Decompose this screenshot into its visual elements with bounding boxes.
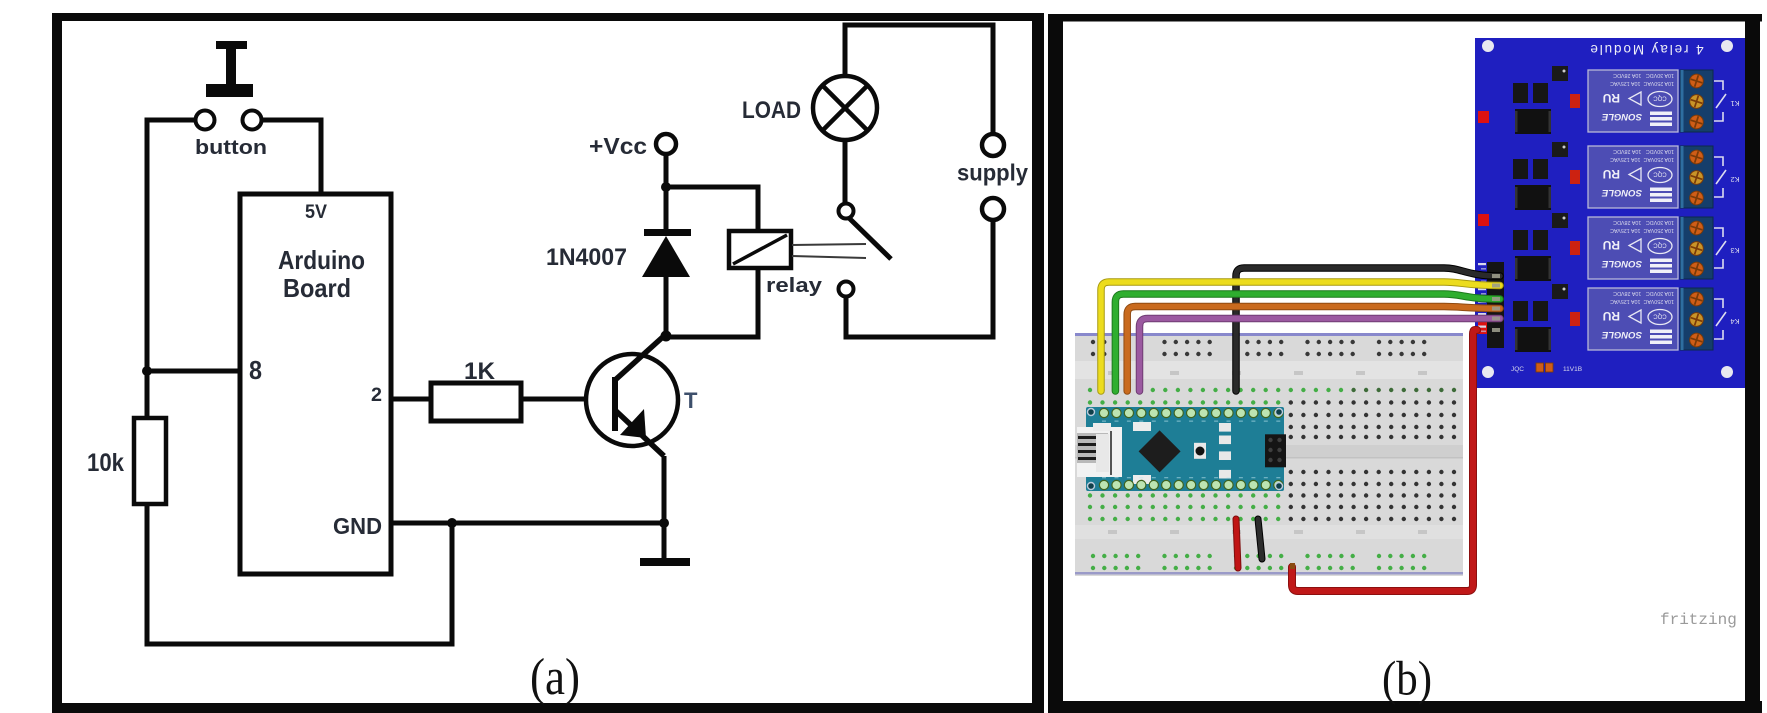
svg-text:(a): (a): [530, 649, 580, 706]
svg-text:K2: K2: [1730, 175, 1739, 184]
svg-text:RU: RU: [1603, 309, 1620, 323]
svg-text:T: T: [684, 388, 698, 413]
svg-text:Board: Board: [283, 273, 351, 303]
svg-text:(b): (b): [1382, 651, 1432, 706]
svg-text:2: 2: [371, 385, 382, 406]
svg-text:CQC: CQC: [1653, 242, 1667, 248]
svg-text:SONGLE: SONGLE: [1601, 329, 1642, 340]
svg-text:10A 250VAC 10A 125VAC: 10A 250VAC 10A 125VAC: [1610, 298, 1674, 304]
svg-text:10A 30VDC 10A 28VDC: 10A 30VDC 10A 28VDC: [1613, 219, 1674, 225]
svg-text:5V: 5V: [305, 201, 327, 223]
svg-text:SONGLE: SONGLE: [1601, 258, 1642, 269]
svg-text:button: button: [195, 137, 267, 159]
svg-text:8: 8: [249, 355, 262, 385]
svg-text:RU: RU: [1603, 167, 1620, 181]
svg-text:CQC: CQC: [1653, 171, 1667, 177]
svg-text:CQC: CQC: [1653, 95, 1667, 101]
svg-text:SONGLE: SONGLE: [1601, 187, 1642, 198]
svg-text:fritzing: fritzing: [1660, 611, 1737, 629]
svg-text:+Vcc: +Vcc: [589, 133, 647, 159]
svg-text:1K: 1K: [464, 358, 496, 385]
svg-text:K3: K3: [1730, 246, 1739, 255]
svg-text:JQC: JQC: [1511, 366, 1524, 373]
svg-text:RU: RU: [1603, 91, 1620, 105]
svg-text:supply: supply: [957, 160, 1028, 186]
svg-text:10k: 10k: [87, 449, 124, 477]
svg-text:K4: K4: [1730, 317, 1739, 326]
svg-text:1N4007: 1N4007: [546, 244, 627, 271]
svg-text:SONGLE: SONGLE: [1601, 111, 1642, 122]
svg-text:10A 30VDC 10A 28VDC: 10A 30VDC 10A 28VDC: [1613, 290, 1674, 296]
svg-text:11V1B: 11V1B: [1563, 366, 1582, 373]
svg-text:GND: GND: [333, 513, 382, 539]
svg-text:10A 30VDC 10A 28VDC: 10A 30VDC 10A 28VDC: [1613, 148, 1674, 154]
svg-text:LOAD: LOAD: [742, 97, 801, 124]
svg-text:10A 250VAC 10A 125VAC: 10A 250VAC 10A 125VAC: [1610, 156, 1674, 162]
svg-text:10A 250VAC 10A 125VAC: 10A 250VAC 10A 125VAC: [1610, 80, 1674, 86]
svg-text:CQC: CQC: [1653, 313, 1667, 319]
svg-text:10A 30VDC 10A 28VDC: 10A 30VDC 10A 28VDC: [1613, 72, 1674, 78]
svg-text:RU: RU: [1603, 238, 1620, 252]
svg-text:10A 250VAC 10A 125VAC: 10A 250VAC 10A 125VAC: [1610, 227, 1674, 233]
svg-text:K1: K1: [1730, 99, 1739, 108]
svg-text:4 relay Module: 4 relay Module: [1588, 42, 1703, 57]
svg-text:relay: relay: [766, 275, 823, 297]
svg-text:Arduino: Arduino: [278, 245, 365, 275]
